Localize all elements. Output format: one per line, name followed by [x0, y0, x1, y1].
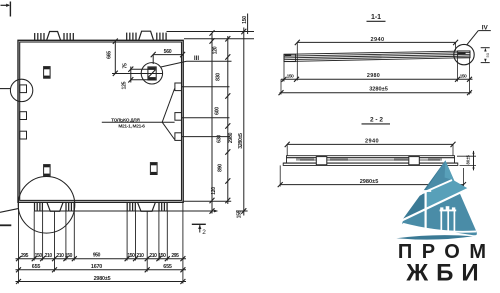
svg-text:III: III	[194, 55, 200, 62]
section 2-2 bar outline	[283, 156, 458, 166]
logo crane mast	[425, 191, 427, 228]
svg-text:2980±5: 2980±5	[360, 179, 379, 185]
logo building post 3	[453, 210, 455, 232]
svg-text:150: 150	[287, 73, 295, 79]
svg-text:125: 125	[122, 81, 128, 89]
leader line only-for note to square d	[162, 89, 174, 123]
bottom dim chain 2	[16, 267, 187, 272]
left edge void square c	[20, 131, 27, 139]
section 1-1 title underline	[367, 20, 386, 22]
datum line through circle III	[112, 73, 162, 75]
logo PromZhBI triangle base	[402, 160, 477, 235]
svg-text:210: 210	[136, 253, 144, 259]
ext line from square f	[182, 136, 230, 138]
right edge void square e	[175, 113, 182, 121]
svg-text:IV: IV	[482, 25, 489, 32]
hatch row 4 section 2-2	[429, 158, 441, 160]
logo building merlon 1	[440, 207, 443, 210]
mid dim line 150-2980-150	[281, 77, 473, 82]
right thickness dim section 2-2	[457, 151, 476, 171]
logo building post 2	[447, 210, 449, 232]
bottom dim chain 1	[16, 256, 187, 261]
dim 75-125 vertical line	[128, 67, 148, 83]
leader to bottom-left circle	[0, 209, 18, 213]
svg-text:2980±5: 2980±5	[94, 276, 111, 282]
underline leader of only-for note	[102, 121, 175, 123]
logo building merlon 2	[446, 206, 450, 210]
hatch row 1 section 2-2	[297, 158, 313, 160]
stub for 150 top right	[247, 14, 249, 35]
svg-text:630: 630	[217, 135, 223, 143]
ext line from square d	[182, 86, 230, 88]
svg-text:830: 830	[216, 73, 222, 81]
bottom notch 4	[138, 202, 156, 211]
svg-text:890: 890	[218, 164, 224, 172]
svg-text:655: 655	[32, 264, 41, 270]
svg-text:3280±5: 3280±5	[369, 86, 388, 92]
svg-text:150: 150	[158, 253, 166, 259]
dim 2980 line section 2-2	[278, 165, 466, 187]
leader to label IV	[467, 31, 479, 46]
void box left in section 2-2	[316, 157, 327, 165]
svg-text:210: 210	[45, 253, 53, 259]
underline of label IV	[478, 30, 491, 32]
svg-text:600: 600	[215, 107, 221, 115]
anchor symbol S3 bottom-left	[44, 165, 51, 177]
leader to label III	[161, 61, 187, 67]
bottom chain2 texts	[32, 264, 172, 270]
void box right in section 2-2	[409, 157, 420, 165]
svg-text:150: 150	[65, 253, 73, 259]
ext line from square e	[182, 117, 230, 119]
bottom notch 3	[47, 202, 63, 211]
leader to left circle	[0, 88, 10, 90]
svg-text:3280±5: 3280±5	[238, 133, 244, 149]
weld dash left end	[285, 55, 291, 57]
dim 2940 line section 1-1	[295, 40, 458, 81]
detail circle III top middle	[141, 63, 162, 84]
section 1-1 bar outline	[284, 51, 470, 62]
svg-text:М21-1, М21-6: М21-1, М21-6	[118, 124, 145, 130]
logo white long diagonal	[401, 189, 469, 221]
underline of label III	[187, 60, 232, 62]
svg-text:80±5: 80±5	[466, 154, 471, 164]
logo light right band	[426, 180, 469, 210]
left edge void square b	[20, 112, 27, 120]
dim 665 vertical line	[113, 39, 118, 77]
bottom dim line 3280	[279, 90, 473, 95]
logo ground cut	[403, 224, 476, 232]
top rib tick group B	[64, 33, 73, 40]
right edge void square f	[175, 133, 182, 141]
detail circle II on left edge	[10, 79, 32, 101]
ext line top ribs level	[167, 31, 255, 33]
svg-text:150: 150	[35, 253, 43, 259]
svg-text:295: 295	[21, 253, 29, 259]
ext line plan bottom edge	[183, 200, 231, 202]
weld dash right end	[458, 52, 466, 54]
svg-text:2980: 2980	[228, 132, 234, 143]
hatch row 2 section 2-2	[331, 158, 347, 160]
logo dark left wedge	[401, 161, 445, 221]
svg-text:1-1: 1-1	[371, 14, 381, 21]
plan outline inner	[20, 42, 182, 200]
right edge void square d	[175, 83, 182, 91]
svg-text:120: 120	[213, 46, 219, 54]
svg-text:1670: 1670	[91, 264, 102, 270]
ext lines for mid dim	[281, 58, 470, 95]
faint mid line of bar	[300, 159, 440, 161]
bottom rib tick group E	[35, 202, 43, 211]
detail circle IV right end	[454, 44, 474, 64]
svg-text:210: 210	[56, 253, 64, 259]
top rib tick group A	[35, 33, 44, 40]
ext line plan top edge	[184, 38, 254, 40]
svg-text:ЖБИ: ЖБИ	[405, 259, 486, 286]
svg-text:2 - 2: 2 - 2	[370, 117, 383, 124]
svg-text:665: 665	[106, 51, 112, 59]
svg-text:950: 950	[93, 253, 101, 259]
left edge void square a	[20, 85, 27, 93]
hatch row 3 section 2-2	[395, 158, 407, 160]
anchor symbol in circle III	[148, 67, 156, 80]
svg-text:75: 75	[122, 63, 128, 69]
svg-text:210: 210	[149, 253, 157, 259]
svg-text:295: 295	[171, 253, 179, 259]
anchor symbol S4 bottom-right	[150, 163, 157, 175]
logo building merlon 3	[452, 207, 455, 210]
svg-text:150: 150	[127, 253, 135, 259]
svg-text:2980: 2980	[367, 73, 380, 79]
svg-text:2940: 2940	[370, 37, 384, 43]
section marker 1 top-left	[1, 2, 11, 17]
section marker 2 left margin bar	[0, 224, 11, 226]
section 2 cut line with arrow	[34, 210, 218, 213]
mini dim right of circle IV	[481, 48, 490, 63]
bottom chain1 texts	[21, 253, 179, 259]
logo crane jib	[419, 180, 452, 195]
logo light apex sliver	[445, 161, 454, 181]
logo building top bar	[440, 209, 457, 211]
svg-text:560: 560	[164, 49, 172, 55]
anchor symbol S1 top-left	[44, 67, 51, 79]
svg-text:2940: 2940	[365, 139, 379, 145]
logo building post 1	[440, 210, 442, 231]
bottom rib tick group H	[159, 202, 167, 211]
detail circle bottom-left	[18, 177, 75, 234]
section 2-2 title underline	[362, 123, 391, 125]
svg-text:ТОЛЬКО ДЛЯ: ТОЛЬКО ДЛЯ	[111, 117, 140, 123]
svg-text:655: 655	[163, 264, 172, 270]
chain A vertical dim line	[210, 30, 215, 213]
svg-text:2: 2	[202, 229, 206, 236]
plan outline outer	[18, 40, 183, 202]
chain C vertical dim line 3280	[241, 28, 246, 216]
top notch 2	[139, 31, 154, 40]
logo underline swoosh	[396, 235, 473, 240]
ext lines from plan bottom to chains	[19, 203, 183, 284]
svg-text:50: 50	[485, 52, 490, 57]
dim 560 line	[151, 52, 185, 64]
bottom dim chain 3	[16, 279, 187, 284]
bottom rib tick group F	[66, 202, 74, 211]
top rib tick group D	[157, 33, 166, 41]
svg-text:150: 150	[460, 73, 468, 79]
leader line only-for note to square f	[162, 122, 174, 139]
dim 2940 line section 2-2	[285, 142, 456, 156]
ext line chain C bottom	[236, 210, 248, 212]
top rib tick group C	[127, 33, 136, 41]
section marker 2 bottom	[192, 224, 206, 232]
svg-text:120: 120	[211, 187, 217, 195]
top notch 1	[47, 32, 61, 41]
logo crane top bar	[421, 190, 431, 192]
logo crane jib tail	[414, 194, 421, 197]
bottom rib tick group G	[127, 202, 135, 211]
svg-text:155: 155	[236, 210, 242, 218]
svg-text:150: 150	[242, 16, 248, 24]
chain B vertical dim line with ticks	[225, 36, 230, 204]
